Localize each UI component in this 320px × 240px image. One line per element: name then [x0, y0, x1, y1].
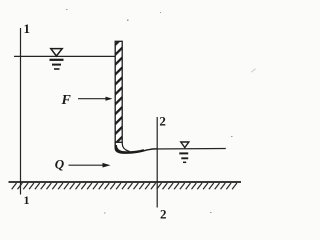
- scan speckles (decorative): [66, 9, 256, 214]
- gate lip / contraction curve at gate bottom: [115, 142, 157, 154]
- svg-text:Q: Q: [55, 156, 65, 171]
- svg-text:F: F: [61, 93, 72, 108]
- svg-text:2: 2: [160, 207, 167, 222]
- Q flow arrow: [69, 163, 111, 168]
- svg-text:1: 1: [24, 21, 31, 36]
- upstream water-surface symbol (nabla): [50, 49, 64, 69]
- section line 2-2 (vertical): [156, 117, 158, 208]
- svg-text:2: 2: [159, 114, 166, 129]
- F force arrow: [78, 97, 113, 101]
- channel bed hatching: [12, 183, 237, 189]
- gate G (hatched plate): [115, 41, 122, 142]
- section line 1-1 (vertical): [20, 28, 22, 195]
- channel bed line: [9, 181, 242, 183]
- gate inner lip line: [122, 142, 129, 151]
- upstream free-surface line: [14, 55, 115, 57]
- gate lip thick underside: [116, 145, 144, 152]
- downstream water-surface symbol (nabla): [179, 142, 189, 162]
- svg-text:1: 1: [24, 193, 30, 207]
- downstream free-surface line: [151, 148, 226, 151]
